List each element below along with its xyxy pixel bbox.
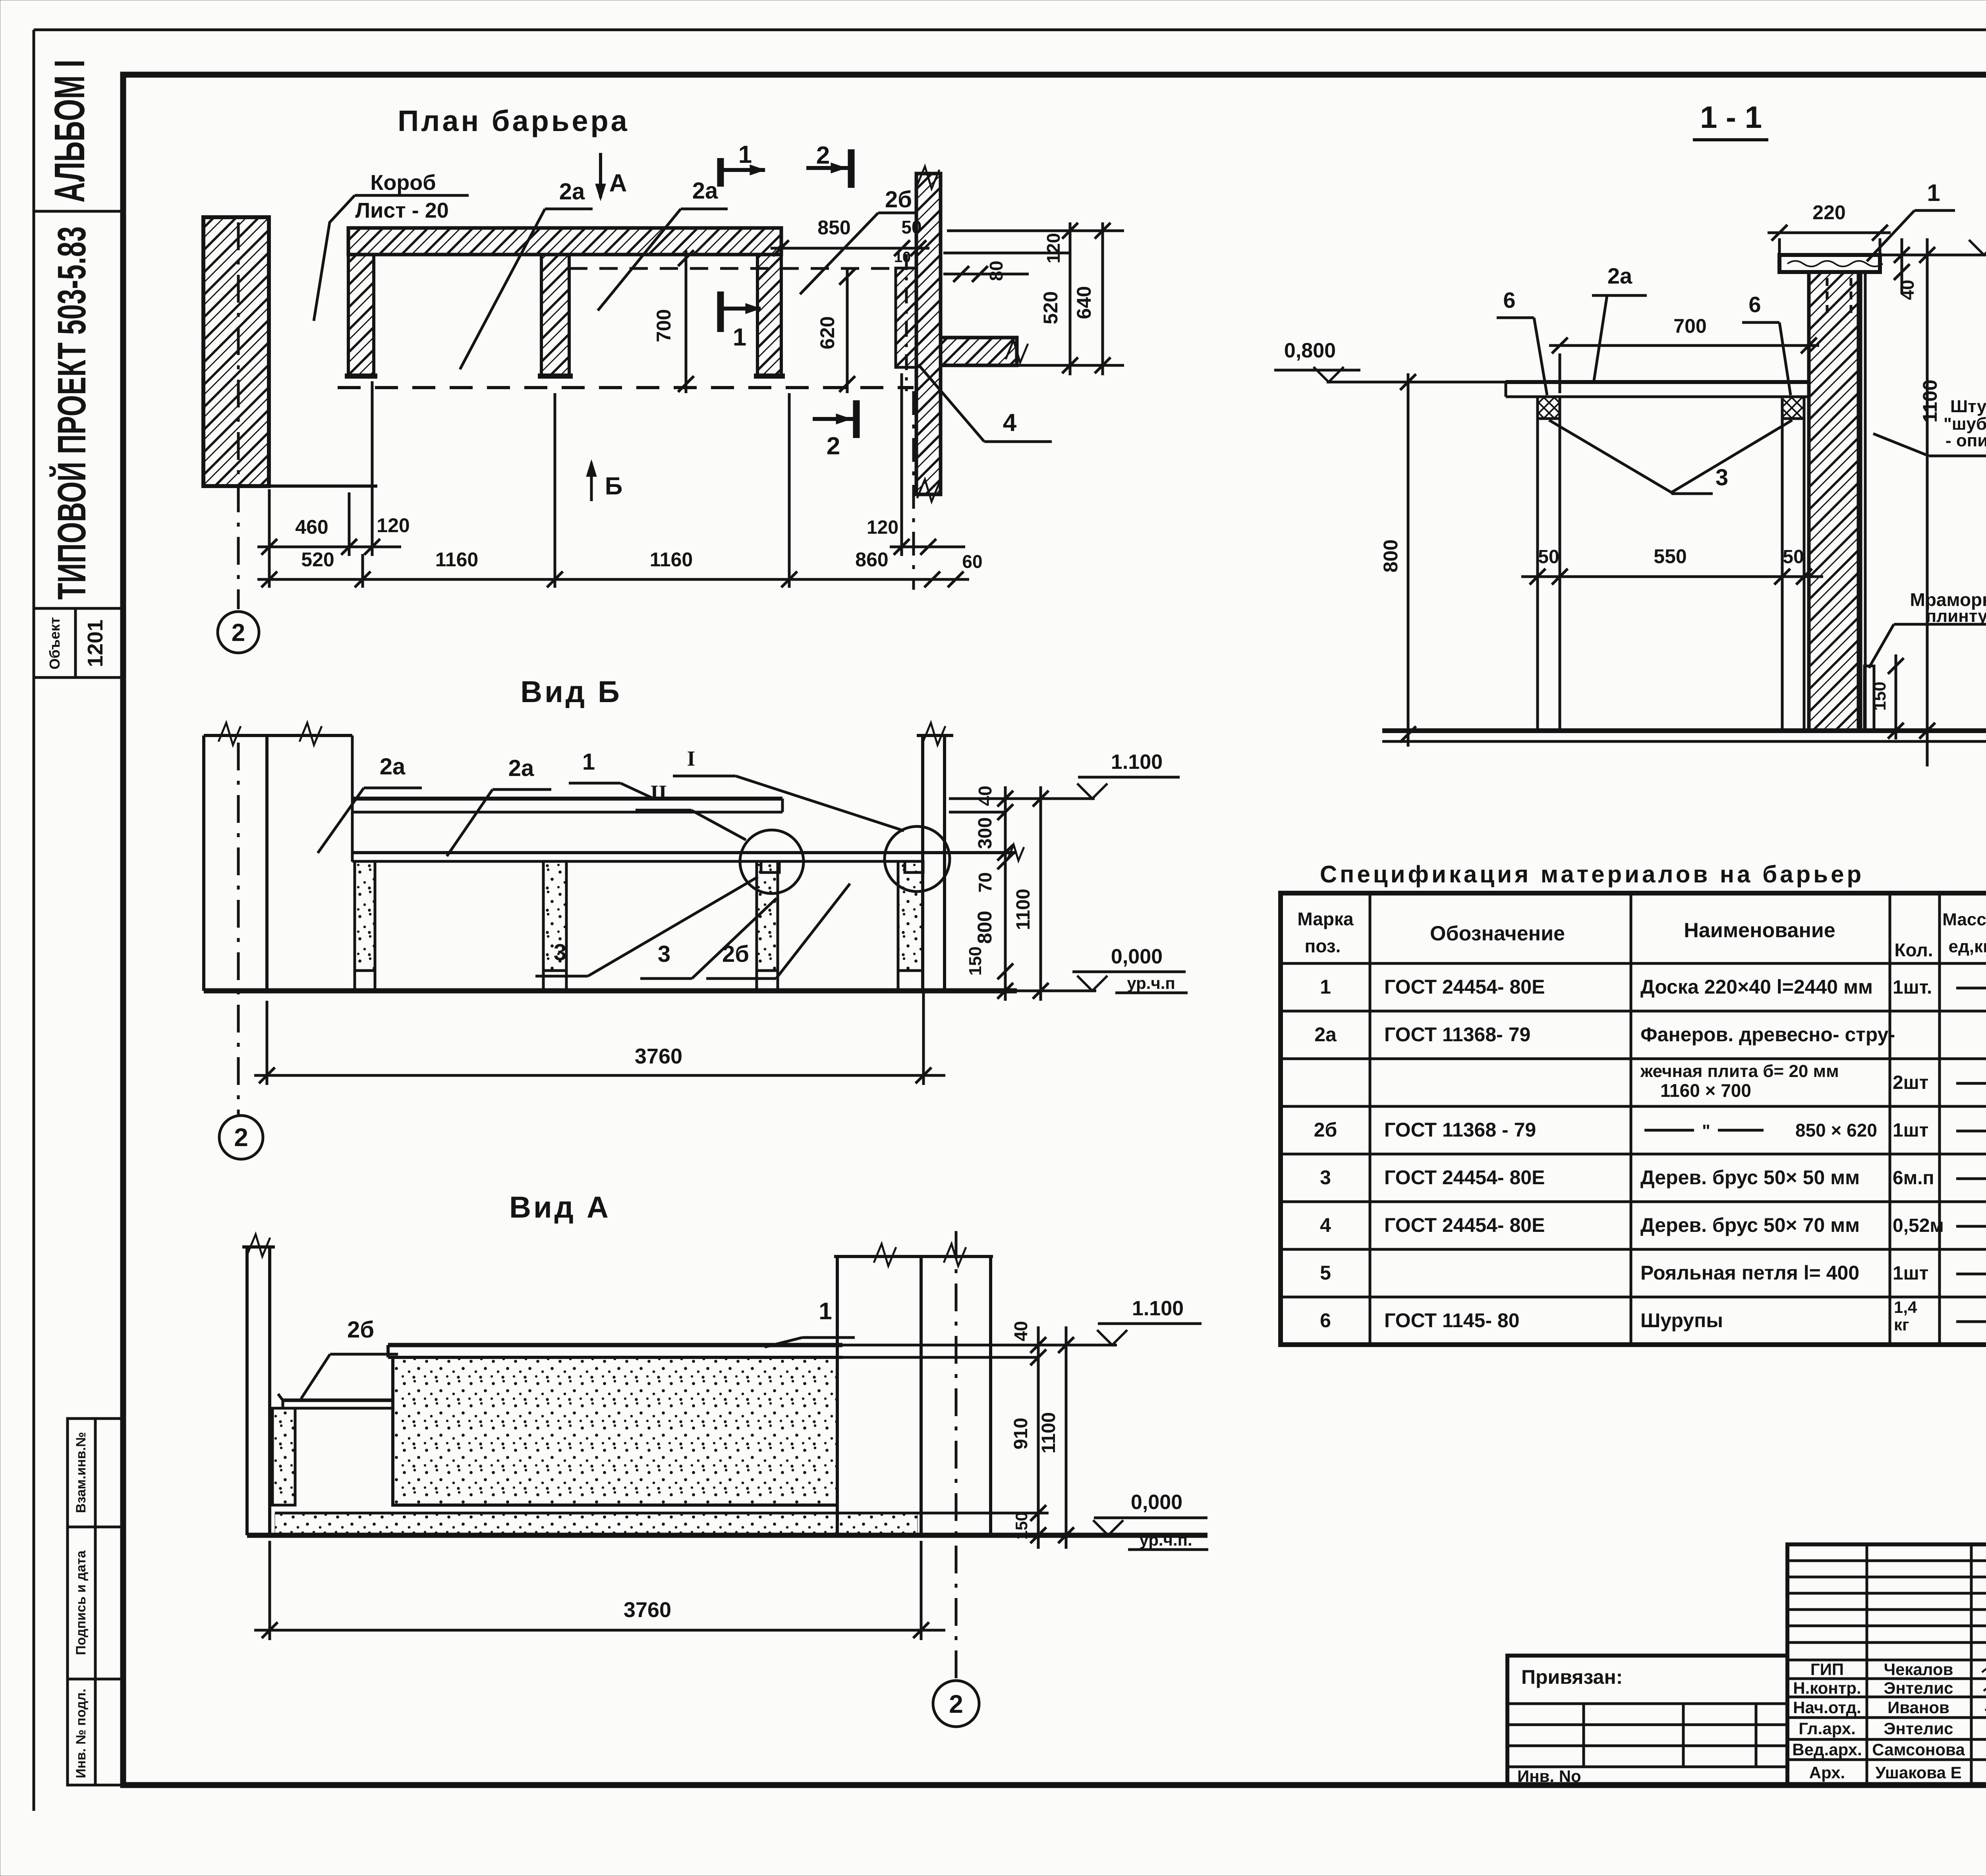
section posts	[1538, 419, 1804, 731]
plan right dim 120	[867, 373, 965, 590]
svg-text:Б: Б	[605, 473, 623, 500]
svg-text:220: 220	[1812, 201, 1845, 224]
signature names	[1792, 1660, 1965, 1782]
svg-text:0,000: 0,000	[1131, 1491, 1182, 1514]
svg-text:Дерев. брус 50× 70 мм: Дерев. брус 50× 70 мм	[1640, 1214, 1860, 1236]
svg-text:70: 70	[975, 872, 995, 892]
svg-text:460: 460	[295, 516, 328, 538]
svg-text:Подпись и дата: Подпись и дата	[73, 1550, 89, 1655]
svg-text:ГИП: ГИП	[1810, 1660, 1844, 1679]
svg-text:800: 800	[1379, 539, 1402, 572]
view A level 1.100	[1038, 1297, 1202, 1345]
svg-text:Штукатурка . Псд: Штукатурка . Псд	[1950, 397, 1986, 416]
svg-text:50: 50	[1783, 546, 1804, 567]
view B step block at post 3	[761, 861, 779, 872]
view B detail circle I	[885, 826, 950, 892]
svg-text:Взам.инв.№: Взам.инв.№	[73, 1432, 89, 1513]
svg-text:700: 700	[1673, 315, 1706, 337]
plan left return wall	[345, 255, 377, 376]
svg-text:1шт.: 1шт.	[1893, 977, 1932, 998]
svg-text:50: 50	[901, 217, 922, 237]
svg-text:40: 40	[1010, 1321, 1031, 1341]
section label 6 left	[1497, 288, 1547, 395]
svg-text:ГОСТ 24454- 80Е: ГОСТ 24454- 80Е	[1384, 1166, 1545, 1189]
svg-text:поз.: поз.	[1305, 936, 1341, 956]
svg-text:1: 1	[1320, 976, 1331, 998]
svg-text:1 - 1: 1 - 1	[1700, 100, 1762, 135]
view B dim 3760	[254, 993, 945, 1085]
svg-text:520: 520	[301, 548, 334, 571]
view B level 1.100	[949, 751, 1180, 799]
svg-text:860: 860	[855, 548, 888, 571]
svg-text:4: 4	[1003, 409, 1017, 436]
svg-text:1: 1	[582, 749, 595, 775]
svg-text:1100: 1100	[1038, 1412, 1059, 1453]
svg-text:640: 640	[1073, 286, 1095, 319]
view B total dim 1100	[1013, 786, 1049, 1001]
section label 1	[1867, 179, 1955, 261]
section label 6 right	[1742, 292, 1791, 395]
plan section mark A	[595, 153, 627, 201]
view A panel speckled	[393, 1357, 837, 1505]
svg-text:Привязан:: Привязан:	[1521, 1666, 1623, 1688]
plan dim 850 and 50	[771, 216, 929, 266]
svg-text:800: 800	[974, 911, 996, 944]
svg-text:Кол.: Кол.	[1894, 940, 1933, 960]
svg-text:Фанеров. древесно- стру-: Фанеров. древесно- стру-	[1640, 1023, 1895, 1046]
svg-text:Лист - 20: Лист - 20	[355, 199, 449, 222]
svg-text:1160 × 700: 1160 × 700	[1660, 1080, 1751, 1101]
svg-text:Обозначение: Обозначение	[1430, 922, 1565, 945]
view A top board	[388, 1345, 842, 1357]
plan label Korob List-20	[314, 171, 469, 321]
plan section cut 1 top	[721, 141, 765, 187]
stamp text TIPOVOI PROEKT	[49, 226, 94, 600]
svg-text:Масса: Масса	[1942, 910, 1986, 929]
bottom stamp box	[68, 1419, 123, 1785]
svg-text:ГОСТ 1145- 80: ГОСТ 1145- 80	[1384, 1309, 1520, 1332]
view A dim 3760	[254, 1541, 945, 1640]
svg-text:1160: 1160	[435, 548, 478, 571]
view B label 3 first	[535, 877, 758, 976]
stamp text ALBOM I	[45, 60, 93, 203]
svg-text:2: 2	[949, 1690, 963, 1718]
section dim 800	[1379, 373, 1416, 747]
svg-text:ГОСТ 24454- 80Е: ГОСТ 24454- 80Е	[1384, 976, 1545, 998]
svg-text:5: 5	[1320, 1262, 1331, 1284]
svg-text:А: А	[609, 170, 627, 197]
svg-text:910: 910	[1010, 1418, 1032, 1449]
svg-text:Вид А: Вид А	[509, 1191, 611, 1224]
view B label 2a second	[447, 755, 551, 856]
signature squiggles	[1982, 1663, 1986, 1776]
svg-text:Ушакова Е: Ушакова Е	[1875, 1763, 1961, 1782]
svg-text:2: 2	[234, 1123, 248, 1152]
section title 1-1	[1693, 100, 1768, 140]
section wall hatched	[1809, 272, 1865, 731]
svg-text:Энтелис: Энтелис	[1884, 1679, 1953, 1697]
view A level 0.000	[1093, 1491, 1208, 1550]
svg-text:1шт: 1шт	[1893, 1120, 1928, 1141]
section floor	[1382, 731, 1986, 741]
svg-text:Вед.арх.: Вед.арх.	[1792, 1740, 1862, 1759]
view B floor line	[204, 988, 1017, 994]
svg-text:850: 850	[817, 216, 850, 239]
svg-text:Марка: Марка	[1297, 909, 1354, 929]
svg-text:ед,кг: ед,кг	[1949, 937, 1986, 956]
view A label 2b	[301, 1317, 398, 1399]
svg-text:II: II	[650, 781, 667, 805]
svg-text:2а: 2а	[692, 178, 718, 204]
svg-text:50: 50	[1538, 546, 1559, 567]
view B title	[520, 675, 622, 709]
svg-text:ГОСТ 24454- 80Е: ГОСТ 24454- 80Е	[1384, 1214, 1545, 1236]
view B top board	[352, 799, 782, 812]
svg-text:Рояльная петля l= 400: Рояльная петля l= 400	[1640, 1262, 1859, 1284]
svg-text:40: 40	[1897, 280, 1918, 300]
section dims 50 550 50	[1521, 545, 1823, 585]
svg-text:Объект: Объект	[46, 617, 63, 670]
svg-text:Гл.арх.: Гл.арх.	[1799, 1719, 1856, 1738]
plan bottom dim row 460 120	[257, 381, 410, 588]
spec table rows	[1314, 976, 1986, 1334]
view A axis 2 circle	[933, 1231, 979, 1727]
svg-text:6: 6	[1748, 292, 1761, 317]
privyazan box	[1507, 1656, 1787, 1785]
plan bottom dim row 520 1160 1160 860 60	[257, 393, 983, 588]
svg-text:2: 2	[827, 432, 840, 460]
svg-text:3760: 3760	[635, 1044, 682, 1068]
view B right dim chain	[949, 786, 1013, 1001]
plan label 2a first	[460, 179, 593, 369]
section shelf	[1506, 382, 1809, 397]
svg-text:3: 3	[554, 940, 566, 965]
view B label 2a first	[318, 754, 422, 853]
svg-text:Самсонова: Самсонова	[1872, 1740, 1965, 1759]
svg-text:Вид Б: Вид Б	[520, 675, 622, 709]
svg-text:": "	[1702, 1121, 1710, 1141]
view B level 0.000	[1017, 945, 1188, 993]
view B label I	[673, 747, 904, 831]
view B label 1	[569, 749, 655, 799]
section label plaster	[1873, 397, 1986, 456]
svg-text:План барьера: План барьера	[398, 104, 630, 137]
svg-text:120: 120	[1043, 233, 1064, 264]
view B axis line circle 2	[219, 743, 263, 1159]
svg-text:1: 1	[1927, 179, 1940, 206]
plan middle post	[538, 255, 573, 376]
svg-text:1.100: 1.100	[1132, 1297, 1184, 1320]
plan section mark B	[586, 460, 622, 501]
plan wall bottom line	[203, 484, 377, 488]
section V leader 3	[1549, 420, 1792, 494]
svg-text:3: 3	[1320, 1166, 1331, 1189]
view A right piers	[834, 1244, 993, 1535]
svg-text:1: 1	[819, 1298, 832, 1324]
section dim 700	[1549, 315, 1819, 393]
view B right pier	[917, 723, 953, 991]
svg-text:6: 6	[1320, 1309, 1331, 1332]
svg-text:2а: 2а	[508, 755, 534, 781]
plan existing wall right	[916, 166, 941, 502]
svg-text:Доска 220×40 l=2440 мм: Доска 220×40 l=2440 мм	[1640, 976, 1873, 998]
svg-text:1.100: 1.100	[1111, 751, 1163, 774]
plan dashed flap line	[569, 267, 896, 270]
section level 1.100	[1880, 230, 1986, 255]
plan axis 2 line and circle	[218, 222, 259, 653]
view B shelf lines	[352, 845, 1024, 861]
svg-text:Шурупы: Шурупы	[1640, 1309, 1723, 1332]
view B label II	[636, 781, 746, 840]
svg-text:1100: 1100	[1919, 380, 1941, 423]
section label 2a	[1592, 263, 1647, 380]
svg-text:0,000: 0,000	[1111, 945, 1163, 968]
plan label 4	[918, 365, 1052, 442]
view B detail circle II	[740, 830, 804, 894]
stamp cell Objekt 1201	[46, 617, 107, 670]
svg-text:10: 10	[894, 249, 911, 266]
svg-text:1: 1	[738, 141, 752, 168]
svg-text:300: 300	[975, 817, 996, 849]
view B posts	[355, 861, 923, 991]
svg-text:Энтелис: Энтелис	[1884, 1719, 1953, 1738]
svg-text:- опилки): - опилки)	[1945, 431, 1986, 450]
section dim 150	[1870, 654, 1904, 739]
svg-text:ГОСТ 11368 - 79: ГОСТ 11368 - 79	[1384, 1119, 1536, 1141]
svg-text:1201: 1201	[83, 620, 107, 667]
plan section cut 2 top	[806, 142, 851, 188]
svg-text:Чекалов: Чекалов	[1884, 1660, 1953, 1679]
svg-text:150: 150	[1012, 1512, 1031, 1540]
svg-text:жечная плита б= 20 мм: жечная плита б= 20 мм	[1640, 1062, 1839, 1081]
svg-text:550: 550	[1654, 545, 1687, 567]
view B step block at right post	[905, 861, 923, 872]
plan section cut 1 bottom	[721, 291, 761, 351]
svg-text:80: 80	[986, 261, 1007, 281]
section dowels dashed	[1827, 278, 1851, 314]
plan right vertical dims 120 520 640	[947, 222, 1124, 375]
svg-text:Инв. № подл.: Инв. № подл.	[73, 1689, 89, 1778]
svg-text:2б: 2б	[722, 941, 749, 967]
svg-text:2а: 2а	[1607, 263, 1632, 288]
svg-text:0,52м: 0,52м	[1893, 1215, 1944, 1236]
svg-text:2б: 2б	[885, 187, 912, 212]
svg-text:Н.контр.: Н.контр.	[1793, 1679, 1861, 1697]
svg-text:3: 3	[1716, 465, 1728, 490]
plan flap 2b	[896, 254, 917, 391]
section dim 220	[1768, 201, 1891, 262]
svg-text:I: I	[687, 747, 695, 770]
section support blocks 6	[1538, 397, 1804, 419]
svg-text:4: 4	[1320, 1214, 1331, 1236]
svg-text:2б: 2б	[347, 1317, 374, 1343]
svg-text:2а: 2а	[559, 179, 585, 205]
view B label 2b	[706, 884, 850, 979]
svg-text:Иванов: Иванов	[1887, 1698, 1949, 1717]
svg-text:2: 2	[816, 142, 830, 169]
plan dim 620 vertical	[816, 268, 855, 393]
svg-text:2шт: 2шт	[1893, 1072, 1928, 1093]
section board 1	[1779, 255, 1883, 272]
svg-text:2б: 2б	[1314, 1119, 1337, 1141]
svg-text:3760: 3760	[624, 1598, 671, 1622]
svg-text:150: 150	[1870, 681, 1889, 710]
left stamp strip dividers	[34, 211, 123, 677]
view A title	[509, 1191, 611, 1224]
svg-text:2а: 2а	[380, 754, 406, 780]
svg-text:Инв. No: Инв. No	[1517, 1767, 1581, 1785]
plan section cut 2 bottom	[813, 400, 856, 460]
svg-text:ур.ч.п: ур.ч.п	[1127, 974, 1175, 992]
section level 0.800	[1274, 339, 1509, 382]
svg-text:850 × 620: 850 × 620	[1795, 1120, 1877, 1141]
svg-text:120: 120	[377, 514, 410, 537]
svg-text:6м.п: 6м.п	[1893, 1168, 1934, 1189]
svg-text:620: 620	[816, 316, 838, 349]
svg-text:кг: кг	[1894, 1315, 1909, 1334]
plan title	[398, 104, 630, 137]
plan dim 80	[943, 253, 1070, 282]
svg-text:40: 40	[975, 786, 995, 806]
view A floor strip	[247, 1513, 1207, 1535]
svg-text:1100: 1100	[1013, 889, 1034, 930]
view A label 1	[765, 1298, 855, 1347]
svg-text:1шт: 1шт	[1893, 1263, 1928, 1284]
svg-text:520: 520	[1039, 291, 1062, 324]
view B label 3 second	[640, 898, 777, 979]
svg-text:Спецификация материалов на: Спецификация материалов на барьер	[1320, 861, 1864, 888]
view B left pier	[204, 723, 352, 991]
section plinth	[1864, 666, 1874, 731]
plan right post	[754, 255, 785, 376]
svg-text:700: 700	[653, 309, 675, 342]
spec table header	[1297, 909, 1986, 960]
svg-text:Наименование: Наименование	[1684, 919, 1835, 942]
svg-text:Короб: Короб	[370, 171, 436, 195]
plan left wall hatched	[203, 217, 269, 486]
view A right dims 40 910 150 1100	[918, 1321, 1074, 1549]
svg-text:1160: 1160	[650, 548, 693, 571]
svg-text:120: 120	[867, 517, 898, 538]
svg-text:ТИПОВОЙ ПРОЕКТ 503-5.83: ТИПОВОЙ ПРОЕКТ 503-5.83	[49, 226, 94, 600]
plan dim 700 vertical	[653, 250, 694, 393]
plan barrier top wall strip	[348, 228, 781, 255]
svg-text:2: 2	[232, 619, 245, 647]
svg-text:ур.ч.п.: ур.ч.п.	[1139, 1531, 1192, 1549]
svg-text:АЛЬБОМ I: АЛЬБОМ I	[45, 60, 93, 203]
section label marble plinth	[1869, 589, 1986, 668]
view A mini post	[272, 1408, 295, 1505]
svg-text:3: 3	[658, 941, 670, 967]
spec table grid	[1281, 893, 1986, 1345]
svg-text:ГОСТ 11368- 79: ГОСТ 11368- 79	[1384, 1023, 1530, 1046]
svg-text:60: 60	[962, 551, 982, 572]
svg-text:2а: 2а	[1314, 1023, 1337, 1046]
plan label 2b	[800, 187, 917, 294]
svg-text:6: 6	[1503, 288, 1515, 313]
svg-text:1,4: 1,4	[1894, 1298, 1917, 1316]
spec table title	[1320, 861, 1864, 888]
plan dashed axis line	[338, 386, 914, 389]
section dim 40 and 1100	[1894, 238, 1941, 766]
plan partition stub wall	[941, 338, 1028, 365]
view A board extension lines	[837, 1345, 1038, 1357]
view A flap shelf 2b	[278, 1394, 393, 1408]
svg-text:0,800: 0,800	[1284, 339, 1336, 362]
svg-text:Нач.отд.: Нач.отд.	[1793, 1698, 1861, 1717]
svg-text:Дерев. брус 50× 50 мм: Дерев. брус 50× 50 мм	[1640, 1166, 1860, 1189]
svg-text:Арх.: Арх.	[1809, 1763, 1845, 1782]
svg-text:150: 150	[966, 946, 985, 975]
svg-text:1: 1	[733, 324, 746, 351]
plan label 2a second	[598, 178, 728, 311]
view A left pier	[242, 1234, 275, 1535]
signature table	[1787, 1544, 1986, 1785]
